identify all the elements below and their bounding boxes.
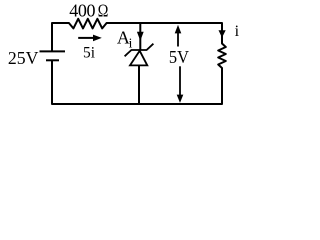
zener diode D1 cathode bar with bent ends (125, 44, 154, 57)
wire zener branch lower (138, 65, 140, 105)
svg-text:5i: 5i (83, 45, 96, 62)
battery V1 long plate (+) (40, 50, 66, 52)
svg-text:i: i (235, 23, 240, 40)
current arrow 5i head (93, 35, 102, 42)
svg-text:400: 400 (69, 1, 95, 21)
battery V1 short plate (-) (46, 59, 59, 61)
svg-text:25V: 25V (8, 48, 39, 68)
svg-text:i: i (129, 35, 133, 50)
current arrowhead into zener branch (137, 32, 144, 41)
zener diode D1 triangle (anode) (130, 51, 147, 66)
wire outer loop: left branch, top rail with 400 ohm resistor zigzag, right branch with resistor zigzag, bottom rail (52, 19, 226, 104)
voltage arrow down (5V) head (177, 95, 184, 103)
svg-text:5V: 5V (169, 47, 189, 67)
voltage arrow down (5V) shaft (179, 66, 181, 96)
voltage arrow up (5V) head (175, 25, 182, 34)
wire zener branch upper (139, 23, 141, 51)
current arrowhead i on right branch (219, 30, 226, 37)
current arrow 5i shaft (78, 37, 93, 39)
svg-text:Ω: Ω (98, 1, 109, 21)
voltage arrow up (5V) shaft (177, 32, 179, 47)
